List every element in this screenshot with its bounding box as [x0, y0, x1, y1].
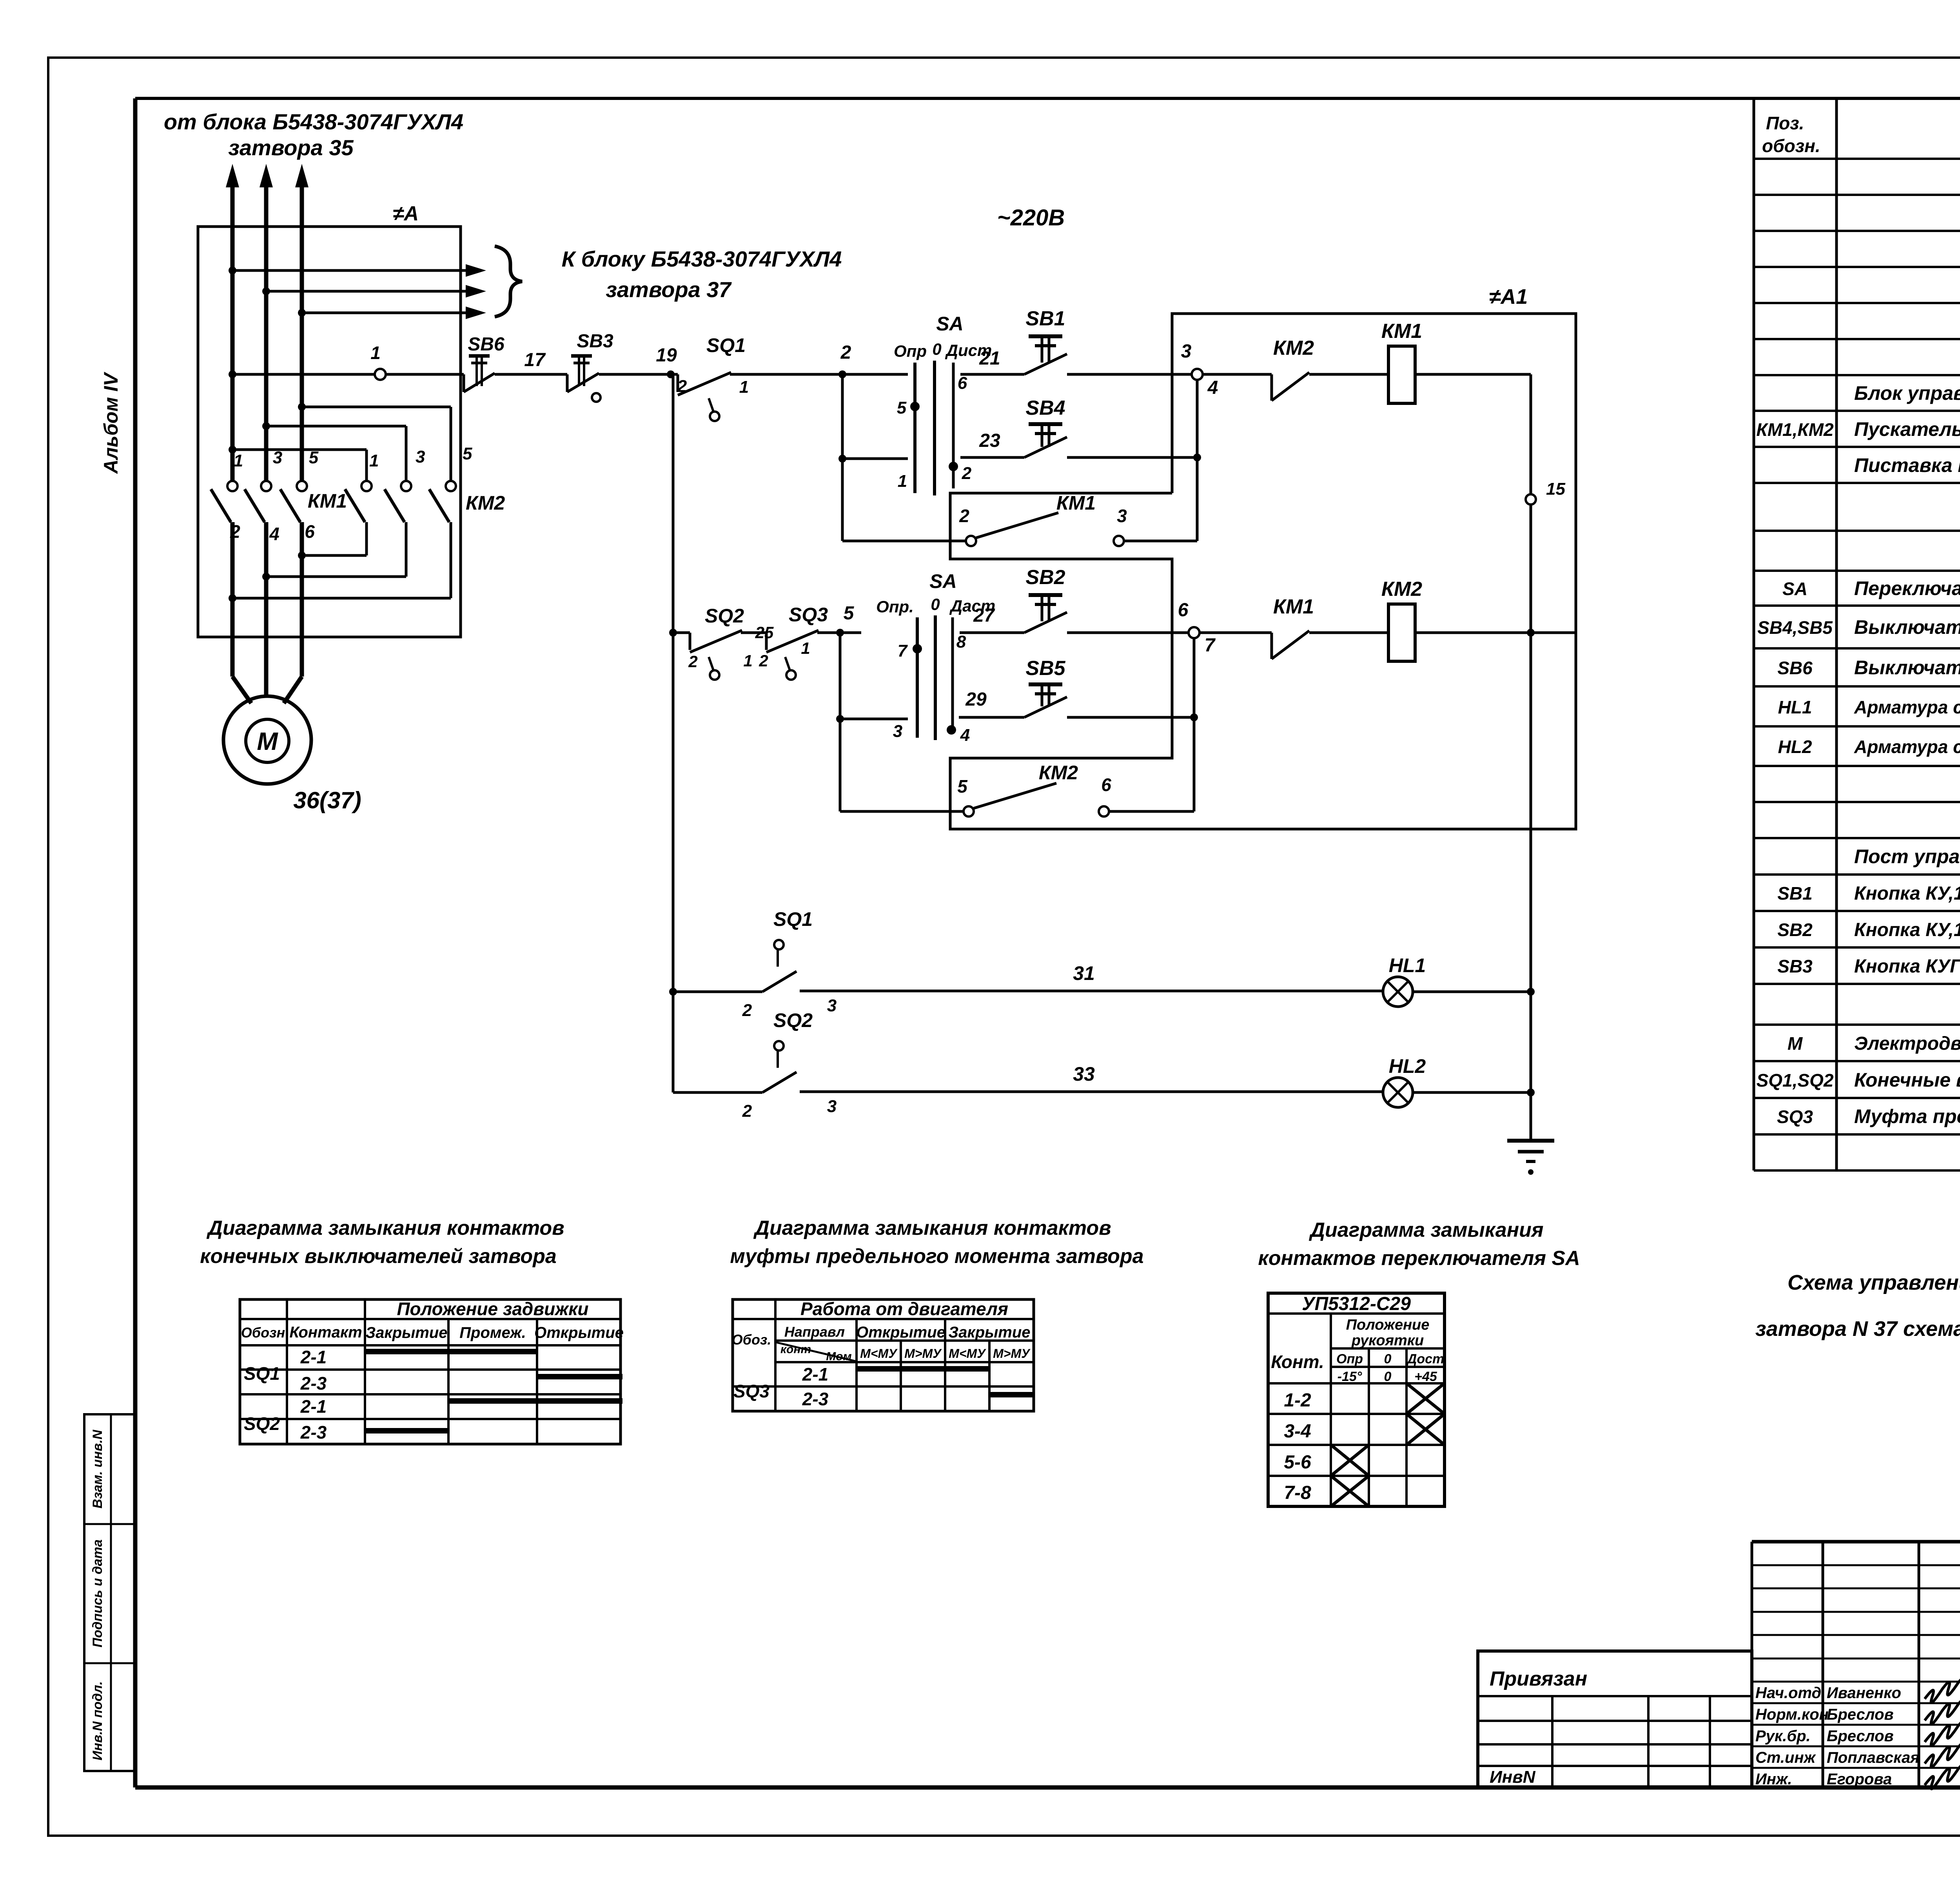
svg-text:3: 3: [273, 448, 282, 467]
svg-text:2: 2: [959, 506, 969, 526]
svg-text:2: 2: [840, 342, 851, 363]
node 19: [656, 345, 677, 378]
torque switch SQ3 in rung 2: [743, 604, 840, 680]
svg-text:Электродвигатель 4АХС100S4У3: Электродвигатель 4АХС100S4У3: [1854, 1033, 1960, 1054]
svg-text:4: 4: [960, 726, 970, 745]
svg-text:SB3: SB3: [577, 331, 613, 352]
svg-text:Рук.бр.: Рук.бр.: [1755, 1727, 1811, 1745]
contact KM2 NC in rung 1: [1203, 337, 1388, 401]
closing diagram torque clutch title: [730, 1217, 1143, 1268]
D1 closed state bars: [365, 1352, 622, 1431]
svg-text:SQ3: SQ3: [1777, 1107, 1813, 1127]
svg-text:23: 23: [979, 430, 1000, 451]
signal lamp HL2: [1383, 1055, 1535, 1107]
svg-text:Опр: Опр: [1336, 1352, 1363, 1366]
svg-text:SQ1: SQ1: [706, 334, 746, 356]
svg-text:КМ2: КМ2: [466, 492, 505, 514]
svg-text:17: 17: [524, 350, 546, 370]
svg-text:SA: SA: [929, 570, 956, 592]
pushbutton SB4: [1024, 397, 1201, 461]
motor M 36(37): [223, 696, 361, 813]
svg-text:6: 6: [958, 374, 967, 393]
svg-text:SB1: SB1: [1777, 883, 1812, 904]
svg-text:21: 21: [979, 348, 1000, 369]
closing diagram table D3: [1268, 1293, 1445, 1506]
svg-text:Инв.N подл.: Инв.N подл.: [90, 1681, 105, 1760]
svg-text:5: 5: [309, 448, 319, 467]
crossover wires KM2 to motor wires: [229, 552, 451, 602]
svg-text:Обоз.: Обоз.: [732, 1332, 771, 1348]
ground symbol: [1507, 1141, 1554, 1175]
svg-text:Работа от двигателя: Работа от двигателя: [800, 1299, 1008, 1319]
svg-text:SQ1: SQ1: [244, 1363, 280, 1384]
svg-text:2: 2: [677, 377, 687, 396]
svg-text:затвора 37: затвора 37: [606, 277, 732, 302]
control bus node 1: [229, 343, 464, 380]
svg-text:Иваненко: Иваненко: [1827, 1684, 1901, 1702]
svg-text:1: 1: [898, 472, 907, 491]
left margin stamp table: [84, 1414, 135, 1771]
svg-text:SB6: SB6: [468, 334, 505, 355]
svg-text:SQ1: SQ1: [773, 908, 813, 930]
svg-text:1-2: 1-2: [1284, 1390, 1311, 1411]
right drop wire with node 15: [1526, 374, 1565, 1139]
svg-text:HL1: HL1: [1389, 954, 1426, 976]
svg-text:Выключатель КЕ011У3 исп.4: Выключатель КЕ011У3 исп.4: [1854, 616, 1960, 638]
svg-text:Муфта предельного момента: Муфта предельного момента: [1854, 1105, 1960, 1127]
svg-text:SB5: SB5: [1025, 657, 1065, 680]
svg-text:31: 31: [1073, 962, 1095, 984]
signature names: [1755, 1675, 1960, 1789]
svg-text:3: 3: [416, 447, 425, 466]
svg-text:Открытие: Открытие: [856, 1324, 946, 1341]
svg-text:Подпись и дата: Подпись и дата: [90, 1539, 105, 1648]
svg-text:1: 1: [234, 451, 243, 470]
svg-text:Опр.: Опр.: [876, 597, 914, 616]
svg-text:Бреслов: Бреслов: [1827, 1727, 1894, 1745]
svg-text:SB6: SB6: [1777, 658, 1813, 678]
svg-text:Егорова: Егорова: [1827, 1771, 1892, 1788]
privyazan table: [1478, 1651, 1752, 1787]
svg-text:Альбом IV: Альбом IV: [100, 372, 122, 474]
svg-text:Дост: Дост: [1406, 1352, 1444, 1366]
svg-text:затвора N 37 схема аналогич: затвора N 37 схема аналогична.: [1755, 1317, 1960, 1341]
svg-text:Закрытие: Закрытие: [365, 1324, 447, 1341]
closing diagram table D2: [732, 1299, 1034, 1411]
svg-text:М<МУ: М<МУ: [860, 1346, 898, 1361]
svg-text:Промеж.: Промеж.: [459, 1324, 526, 1341]
svg-text:от блока Б5438-3074ГУХЛ4: от блока Б5438-3074ГУХЛ4: [164, 109, 463, 134]
node 3: [1181, 341, 1218, 541]
aux contact KM2 seal-in: [840, 633, 1194, 817]
svg-text:Кнопка КУ,1з+1р, чёрный толкат: Кнопка КУ,1з+1р, чёрный толкатель: [1854, 883, 1960, 904]
svg-text:5: 5: [463, 444, 472, 463]
svg-text:Инж.: Инж.: [1755, 1771, 1792, 1788]
limit switch SQ1 lamp circuit: [669, 908, 1383, 1020]
svg-text:Норм.кон: Норм.кон: [1755, 1706, 1829, 1723]
svg-text:Арматура светосигнальная АС120: Арматура светосигнальная АС12011У2: [1854, 697, 1960, 717]
svg-text:4: 4: [1207, 377, 1218, 398]
svg-text:Поз.: Поз.: [1766, 113, 1804, 133]
svg-text:Поплавская: Поплавская: [1827, 1749, 1920, 1766]
vertical feed wire left: [669, 374, 677, 1092]
svg-text:SB2: SB2: [1025, 566, 1065, 589]
svg-text:затвора 35: затвора 35: [228, 135, 354, 160]
svg-text:КМ2: КМ2: [1381, 578, 1422, 601]
svg-text:2: 2: [742, 1001, 752, 1020]
svg-text:SQ2: SQ2: [244, 1414, 280, 1434]
svg-text:36(37): 36(37): [293, 787, 361, 813]
wire 29 from SA: [836, 689, 1024, 723]
svg-text:7: 7: [898, 641, 908, 660]
svg-text:3-4: 3-4: [1284, 1421, 1311, 1442]
svg-text:обозн.: обозн.: [1762, 136, 1820, 156]
svg-text:КМ1: КМ1: [1056, 492, 1096, 514]
contactor KM1 main contacts: [211, 448, 347, 637]
limit switch SQ1 in rung 1: [671, 334, 842, 421]
svg-text:-15°: -15°: [1338, 1369, 1362, 1384]
svg-text:2-3: 2-3: [802, 1389, 829, 1409]
svg-text:6: 6: [305, 521, 315, 542]
pushbutton SB5: [1024, 657, 1198, 721]
svg-text:Ст.инж: Ст.инж: [1755, 1749, 1817, 1766]
node 2: [838, 342, 908, 541]
closing diagram table D1: [240, 1299, 624, 1444]
svg-text:Диаграмма замыкания: Диаграмма замыкания: [1308, 1219, 1543, 1241]
svg-text:5: 5: [897, 398, 907, 417]
svg-text:конт: конт: [780, 1343, 811, 1356]
svg-text:19: 19: [656, 345, 677, 366]
closing diagram of selector SA title: [1258, 1219, 1580, 1270]
svg-text:Пост управления ПКУ15-21,131-5: Пост управления ПКУ15-21,131-54: [1854, 846, 1960, 867]
svg-text:контактов переключателя SA: контактов переключателя SA: [1258, 1247, 1580, 1270]
svg-text:2-1: 2-1: [300, 1347, 327, 1367]
svg-text:5-6: 5-6: [1284, 1452, 1311, 1473]
node 5: [836, 603, 861, 637]
svg-text:27: 27: [973, 605, 995, 626]
svg-text:0: 0: [932, 340, 941, 358]
svg-text:муфты предельного момента затв: муфты предельного момента затвора: [730, 1245, 1143, 1268]
svg-text:3: 3: [1181, 341, 1192, 362]
svg-text:1: 1: [743, 651, 752, 670]
svg-text:HL1: HL1: [1778, 697, 1812, 717]
limit switch SQ2 in rung 2: [671, 605, 774, 680]
svg-text:КМ1,КМ2: КМ1,КМ2: [1756, 419, 1834, 440]
svg-text:Выключатель КЕ011У3 исп.5: Выключатель КЕ011У3 исп.5: [1854, 657, 1960, 679]
svg-text:1: 1: [801, 639, 810, 657]
limit switch SQ2 lamp circuit: [673, 1009, 1383, 1121]
svg-text:Привязан: Привязан: [1490, 1668, 1587, 1690]
tap to KM2 pole 3: [262, 422, 425, 480]
selector switch SA upper: [894, 313, 992, 495]
svg-text:М: М: [257, 727, 278, 755]
svg-text:М<МУ: М<МУ: [949, 1346, 986, 1361]
aux contact KM1 seal-in: [842, 492, 1197, 546]
phase wire L3 with arrow: [295, 164, 309, 481]
svg-text:Схема управления выполнена дл: Схема управления выполнена для затвора N…: [1788, 1271, 1960, 1294]
phase wire L2 with arrow: [260, 164, 273, 481]
cabinet A box: [198, 202, 461, 637]
svg-text:33: 33: [1073, 1063, 1095, 1085]
svg-text:2-3: 2-3: [300, 1373, 327, 1394]
svg-text:Закрытие: Закрытие: [948, 1324, 1030, 1341]
note about gate 36 37: [1755, 1271, 1960, 1341]
svg-text:Диаграмма замыкания контактов: Диаграмма замыкания контактов: [206, 1217, 564, 1239]
svg-text:SB3: SB3: [1777, 956, 1813, 976]
svg-text:УП5312-С29: УП5312-С29: [1302, 1294, 1411, 1314]
pushbutton SB2: [1024, 566, 1189, 633]
svg-text:7-8: 7-8: [1284, 1482, 1311, 1503]
svg-text:1: 1: [370, 343, 381, 363]
svg-text:Открытие: Открытие: [534, 1324, 624, 1341]
parts list table: [1754, 98, 1960, 1170]
coil KM2: [1381, 578, 1576, 661]
svg-text:КМ1: КМ1: [1381, 320, 1422, 343]
svg-text:6: 6: [1101, 775, 1111, 795]
svg-text:рукоятки: рукоятки: [1351, 1332, 1424, 1349]
svg-text:Мом: Мом: [826, 1350, 852, 1363]
svg-text:Переключатель УП5312-С29У3: Переключатель УП5312-С29У3: [1854, 577, 1960, 599]
svg-text:ИнвN: ИнвN: [1490, 1767, 1536, 1787]
svg-text:0: 0: [1384, 1352, 1392, 1366]
motor leads: [232, 637, 302, 703]
svg-text:SQ3: SQ3: [789, 604, 828, 626]
svg-text:КМ2: КМ2: [1039, 762, 1078, 784]
svg-text:2: 2: [759, 651, 768, 670]
panel A1 outline: [950, 285, 1576, 829]
svg-text:КМ1: КМ1: [1273, 595, 1314, 618]
svg-text:7: 7: [1205, 635, 1216, 656]
svg-text:Взам. инв.N: Взам. инв.N: [90, 1429, 105, 1508]
contact KM1 NC in rung 2: [1200, 595, 1388, 659]
svg-text:Опр: Опр: [894, 342, 927, 360]
svg-text:2: 2: [742, 1101, 752, 1121]
svg-text:Положение задвижки: Положение задвижки: [397, 1299, 588, 1319]
svg-text:5: 5: [957, 776, 968, 797]
svg-text:Направл: Направл: [784, 1324, 845, 1340]
coil KM1: [1381, 320, 1531, 403]
svg-text:М>МУ: М>МУ: [993, 1346, 1031, 1361]
svg-text:Положение: Положение: [1346, 1317, 1430, 1333]
svg-text:+45: +45: [1414, 1369, 1437, 1384]
svg-text:1: 1: [739, 377, 749, 397]
svg-text:2: 2: [688, 652, 697, 671]
pushbutton SB1: [1024, 307, 1192, 374]
svg-text:конечных выключателей затвора: конечных выключателей затвора: [200, 1245, 557, 1268]
svg-text:HL2: HL2: [1389, 1055, 1426, 1077]
svg-text:3: 3: [893, 722, 902, 741]
svg-text:К блоку Б5438-3074ГУХЛ4: К блоку Б5438-3074ГУХЛ4: [562, 247, 842, 271]
svg-text:SQ1,SQ2: SQ1,SQ2: [1757, 1070, 1834, 1091]
svg-text:Бреслов: Бреслов: [1827, 1706, 1894, 1723]
title block signature grid: [1752, 1542, 1960, 1787]
svg-text:0: 0: [931, 595, 940, 613]
svg-text:29: 29: [965, 689, 987, 710]
svg-text:15: 15: [1546, 479, 1565, 499]
svg-text:3: 3: [827, 996, 837, 1015]
svg-text:SB2: SB2: [1777, 920, 1813, 940]
contactor KM2 main contacts: [345, 481, 505, 598]
closing diagram of gate limit switches title: [200, 1217, 564, 1268]
wire 23 from SA: [842, 430, 1024, 459]
svg-text:КМ1: КМ1: [308, 490, 347, 512]
svg-text:Пускатель ПМЛ150104В: Пускатель ПМЛ150104В: [1854, 418, 1960, 440]
svg-text:SA: SA: [936, 313, 963, 335]
svg-text:2-1: 2-1: [802, 1364, 828, 1384]
node 6: [1178, 600, 1216, 811]
phase wire L1 with arrow: [226, 164, 239, 481]
svg-text:5: 5: [844, 603, 855, 624]
svg-text:SQ2: SQ2: [773, 1009, 813, 1031]
svg-text:SQ2: SQ2: [705, 605, 744, 627]
svg-text:SQ3: SQ3: [733, 1381, 769, 1401]
signal lamp HL1: [1383, 954, 1535, 1007]
svg-text:SB4: SB4: [1025, 397, 1065, 419]
svg-text:3: 3: [827, 1097, 837, 1116]
svg-text:~220В: ~220В: [997, 205, 1065, 230]
svg-text:Пиставка ПКЛ2004: Пиставка ПКЛ2004: [1854, 454, 1960, 476]
svg-text:Конт.: Конт.: [1271, 1352, 1324, 1372]
svg-text:Блок управления Б5438-3074гухл: Блок управления Б5438-3074гухл4: [1854, 382, 1960, 404]
wire 27: [960, 605, 1024, 633]
pushbutton SB6: [464, 334, 567, 392]
svg-text:Обозн: Обозн: [241, 1325, 285, 1341]
svg-text:2: 2: [962, 464, 972, 483]
wire 21: [960, 348, 1024, 374]
svg-text:2: 2: [230, 521, 240, 542]
svg-text:2-1: 2-1: [300, 1396, 327, 1417]
svg-text:Конечные выключатели: Конечные выключатели: [1854, 1069, 1960, 1091]
svg-text:8: 8: [956, 632, 966, 651]
svg-text:Диаграмма замыкания контактов: Диаграмма замыкания контактов: [753, 1217, 1111, 1239]
svg-text:Нач.отд: Нач.отд: [1755, 1684, 1821, 1702]
svg-text:М>МУ: М>МУ: [904, 1346, 942, 1361]
tap arrows to block of zatvor 37: [229, 246, 842, 319]
selector switch SA lower: [876, 570, 995, 745]
svg-text:SB1: SB1: [1025, 307, 1065, 330]
svg-text:SA: SA: [1782, 579, 1808, 599]
pushbutton SB3: [567, 331, 671, 402]
svg-text:0: 0: [1384, 1369, 1392, 1384]
tap to KM2 pole 1: [229, 446, 379, 480]
svg-text:≠А1: ≠А1: [1489, 285, 1528, 308]
svg-text:6: 6: [1178, 600, 1189, 621]
svg-text:М: М: [1788, 1033, 1803, 1054]
svg-text:≠А: ≠А: [393, 202, 419, 225]
svg-text:2-3: 2-3: [300, 1422, 327, 1443]
svg-text:КМ2: КМ2: [1273, 337, 1314, 359]
svg-text:Арматура светосигнальная АС120: Арматура светосигнальная АС12013У2: [1854, 737, 1960, 757]
tap to KM2 pole 5: [298, 403, 472, 480]
svg-text:Кнопка КУГФ, 2р, красный толка: Кнопка КУГФ, 2р, красный толкатель: [1854, 956, 1960, 977]
svg-text:Кнопка КУ,1з+1р, чёрный толкат: Кнопка КУ,1з+1р, чёрный толкатель: [1854, 920, 1960, 940]
svg-text:Контакт: Контакт: [289, 1324, 362, 1341]
D2 closed state bars: [857, 1369, 1035, 1395]
svg-text:SB4,SB5: SB4,SB5: [1757, 617, 1833, 638]
svg-text:1: 1: [369, 451, 379, 470]
svg-text:HL2: HL2: [1778, 737, 1812, 757]
svg-text:3: 3: [1117, 506, 1127, 526]
D3 X marks: [1331, 1383, 1445, 1506]
label from block B5438-3074GUHL4 zatvora 35: [164, 109, 463, 160]
svg-text:4: 4: [269, 524, 279, 544]
